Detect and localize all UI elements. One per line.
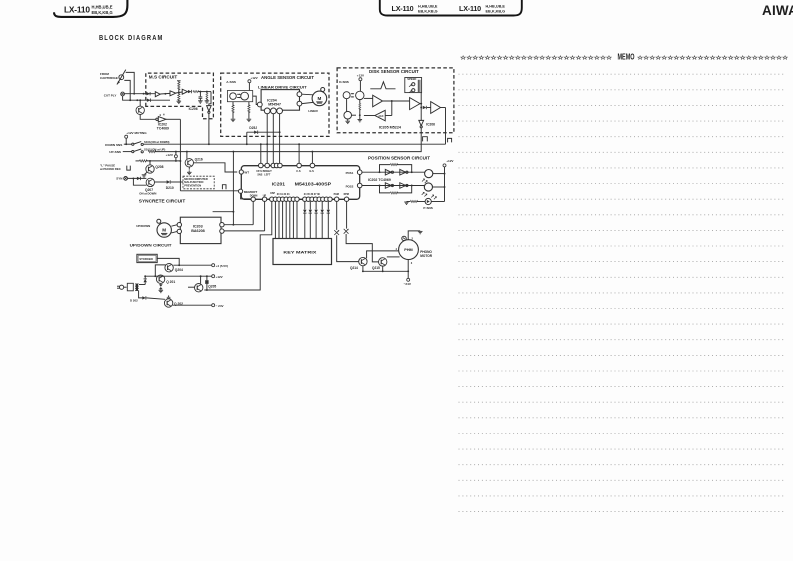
svg-text:BA6208: BA6208 (191, 229, 205, 233)
transistor Q216 (185, 152, 203, 175)
svg-text:+12V: +12V (216, 275, 223, 279)
speed adjust box (405, 77, 422, 93)
transistor Q (disk agc) (344, 99, 352, 124)
svg-text:ON at DOWN: ON at DOWN (139, 191, 156, 195)
wires angle pins to IC201 (261, 114, 280, 163)
pulse mark 1 (423, 137, 428, 142)
svg-text:RPM: RPM (344, 193, 349, 196)
wire POS2 row (362, 185, 424, 187)
svg-text:D 202: D 202 (130, 299, 138, 303)
photo sensor POS2 (422, 183, 433, 197)
transistor Q201 (156, 275, 175, 284)
svg-text:M: M (162, 228, 166, 233)
svg-text:at PHONO REC: at PHONO REC (100, 167, 122, 171)
node +12V (position) (433, 159, 455, 201)
svg-text:−24V: −24V (404, 282, 412, 286)
svg-text:UP/DOWN: UP/DOWN (136, 224, 150, 228)
svg-text:Q 201: Q 201 (166, 280, 175, 284)
memo ruled lines (459, 74, 787, 511)
STROBE box (137, 254, 157, 262)
pin WT (239, 170, 249, 175)
pin (drive input) (253, 96, 262, 107)
amplifier (disk) A1 (364, 95, 383, 107)
wire MEMORY jog (241, 193, 252, 199)
node +4V terminal (212, 264, 228, 268)
feedback loop top with resistor (380, 164, 412, 173)
wire DOWN pin to IC203 (224, 201, 253, 224)
amplifier A3 (182, 89, 187, 94)
svg-text:KEY MATRIX: KEY MATRIX (283, 251, 317, 255)
svg-text:IC205 M5224: IC205 M5224 (379, 125, 402, 129)
svg-text:EB,K,KB,G: EB,K,KB,G (418, 10, 438, 14)
transistor Q205 (188, 276, 216, 292)
svg-text:IC203: IC203 (193, 224, 203, 228)
node +12V terminal (212, 275, 223, 279)
pulse waveform (370, 82, 395, 89)
IC203 BA6208 (180, 217, 221, 243)
wire Q216 collector to WT pin (194, 163, 238, 172)
wire bias line with resistor (Q208 collector) (136, 160, 181, 162)
pin labels IC201 top (256, 169, 314, 177)
divider column R/R (177, 81, 182, 104)
motor UP/DOWN (136, 219, 171, 237)
svg-text:TC4069: TC4069 (157, 127, 169, 131)
node +12V MUTING terminal (125, 131, 148, 145)
svg-text:STOROBO: STOROBO (139, 257, 153, 261)
wire memory line with pulse mark (180, 185, 238, 191)
node SYN terminal (116, 177, 127, 181)
svg-text:IC202 TC4069: IC202 TC4069 (368, 178, 391, 182)
svg-text:UP: UP (263, 194, 267, 197)
svg-text:D25J: D25J (249, 126, 257, 130)
inverters IC202 TC4069 bank (368, 169, 408, 188)
wire +12V rail (145, 275, 212, 277)
svg-text:3: 3 (411, 261, 413, 265)
model tab LX-110 top-middle pair (380, 0, 522, 16)
label L PAUSE at PHONO REC (100, 163, 130, 171)
svg-text:30 31 32 33: 30 31 32 33 (277, 193, 290, 196)
svg-text:WT: WT (244, 171, 249, 175)
AC plug and transformer (117, 283, 139, 291)
photo interrupter A-SNS (226, 80, 252, 102)
model tab LX-110 top-left (54, 0, 127, 17)
svg-text:M54547: M54547 (268, 102, 281, 106)
wire POS1 row (362, 171, 425, 173)
pins IC203 left (171, 223, 181, 234)
svg-text:UP-SNS: UP-SNS (109, 150, 121, 154)
svg-text:LINER: LINER (308, 109, 318, 113)
svg-text:− 24V: − 24V (216, 304, 224, 308)
svg-text:E-S: E-S (310, 169, 315, 173)
svg-text:☆☆☆☆☆☆☆☆☆☆☆☆☆☆☆☆☆☆☆☆☆☆☆☆☆: ☆☆☆☆☆☆☆☆☆☆☆☆☆☆☆☆☆☆☆☆☆☆☆☆☆ (636, 55, 788, 61)
photo sensor D-SNS (339, 80, 364, 99)
pulse mark 2 (448, 138, 452, 142)
svg-text:LINEAR DRIVE CIRCUIT: LINEAR DRIVE CIRCUIT (258, 85, 307, 90)
svg-text:DOWN: DOWN (250, 194, 258, 197)
pins IC203 right (220, 223, 224, 234)
svg-text:POSITION SENSOR CIRCUIT: POSITION SENSOR CIRCUIT (368, 155, 430, 160)
switch S101 DOWN SNS (105, 140, 169, 147)
LINEAR DRIVE CIRCUIT IC204 (258, 85, 307, 111)
svg-text:+12V: +12V (250, 76, 258, 80)
wire disk output (441, 108, 446, 145)
pins (drive to motor) (297, 92, 313, 106)
node +12V (angle) (248, 76, 259, 91)
svg-text:MEMO: MEMO (618, 53, 635, 62)
wire A1-A2 (160, 93, 170, 95)
wire input line upper (125, 92, 156, 95)
svg-text:☆☆☆☆☆☆☆☆☆☆☆☆☆☆☆☆☆☆☆☆☆☆☆☆☆: ☆☆☆☆☆☆☆☆☆☆☆☆☆☆☆☆☆☆☆☆☆☆☆☆☆ (459, 55, 612, 61)
wire cartridge to amp inputs (124, 72, 134, 100)
svg-text:S101(ON at DOWN): S101(ON at DOWN) (144, 140, 170, 144)
transistor Q204 (155, 264, 211, 277)
transistor Q202 (164, 299, 211, 307)
svg-text:C-S: C-S (296, 169, 301, 173)
amplifier A2 (170, 91, 176, 96)
diode D25J (247, 126, 281, 144)
svg-text:ANGLE SENSOR CIRCUIT: ANGLE SENSOR CIRCUIT (261, 75, 314, 80)
svg-text:UP/DOWN CIRCUIT: UP/DOWN CIRCUIT (130, 243, 173, 248)
wire inverter output long vertical (166, 119, 181, 191)
diode D210 (154, 180, 183, 190)
svg-text:MOTOR: MOTOR (420, 254, 433, 258)
svg-text:H,HB,UB,E: H,HB,UB,E (486, 5, 506, 9)
resistor under photo sensor (352, 100, 363, 122)
wire sense line B with resistor (148, 151, 421, 153)
inverter IC206 (M.S) (189, 92, 212, 114)
M.S CIRCUIT dashed box (146, 73, 214, 119)
svg-text:POS2: POS2 (346, 185, 354, 189)
wire -24V rail (362, 270, 409, 272)
svg-text:AIWA: AIWA (762, 3, 793, 18)
capacitor under D202 (167, 295, 171, 298)
svg-text:SYNCRETE CIRCUIT: SYNCRETE CIRCUIT (139, 199, 186, 204)
wire A2 out junction (420, 93, 422, 121)
inverter IC202 TC4069 (156, 114, 169, 131)
AGC amplifier (364, 110, 392, 121)
wire strobe feed (157, 258, 180, 266)
svg-text:SNS LEFT: SNS LEFT (257, 174, 270, 177)
svg-text:DOWN SNS: DOWN SNS (105, 143, 122, 147)
svg-text:Q216: Q216 (195, 157, 203, 161)
amplifier chain A1 (155, 92, 160, 97)
diodes key matrix column group 2 (303, 201, 330, 238)
wire UP pin to IC203 (224, 201, 265, 231)
svg-text:LX-110: LX-110 (392, 4, 414, 13)
lamp symbol PHM line (334, 201, 359, 261)
pin labels IC201 bottom (250, 192, 349, 198)
svg-text:+12V: +12V (357, 73, 365, 77)
MEMO header star row (459, 53, 788, 62)
svg-text:AGC: AGC (378, 115, 383, 118)
lamp symbol RPM line (344, 201, 379, 262)
svg-text:PHM: PHM (334, 193, 339, 196)
svg-text:BLOCK DIAGRAM: BLOCK DIAGRAM (99, 33, 164, 42)
svg-text:POS1: POS1 (346, 171, 354, 175)
svg-text:MALFUNCTION: MALFUNCTION (184, 180, 203, 184)
KEY MATRIX box (273, 239, 332, 265)
transistor Q214 (350, 251, 399, 271)
svg-text:+12V MUTING: +12V MUTING (126, 131, 147, 135)
cartridge input labels (100, 72, 118, 80)
pins IC201 top (259, 163, 315, 168)
inverter IC206 (disk) (419, 120, 435, 151)
svg-text:UP-S BRIGHT: UP-S BRIGHT (256, 170, 272, 173)
pins POS1 POS2 (346, 170, 362, 189)
wire motor top to ground (408, 231, 422, 240)
motor PHM phono (396, 236, 433, 265)
svg-text:IC201: IC201 (272, 182, 286, 187)
wire syncrete feed vertical (213, 152, 235, 226)
svg-text:LX-110: LX-110 (459, 4, 481, 13)
svg-text:+12V: +12V (166, 153, 174, 157)
transistor Q212 (muting) (136, 100, 156, 119)
svg-text:+4 (5.5V): +4 (5.5V) (216, 264, 228, 268)
svg-text:M54103-400SP: M54103-400SP (295, 182, 332, 187)
svg-text:Q205: Q205 (208, 285, 216, 289)
node +12V (disk) (357, 73, 365, 91)
cartridge stylus symbol (117, 70, 126, 85)
IC U201 microcomputer M54103 (241, 166, 359, 200)
amplifier (disk) A2 (410, 98, 420, 110)
svg-text:Q215: Q215 (372, 266, 380, 270)
diode to A3 (423, 106, 431, 109)
feedback loop bottom with resistor (380, 186, 412, 194)
svg-text:CARTRIDGE: CARTRIDGE (100, 76, 118, 80)
diode and resistor after A3 (188, 90, 211, 93)
wire A2-A3 (176, 92, 182, 94)
svg-text:2: 2 (412, 237, 414, 241)
resistors to ground (angle) (231, 102, 252, 122)
wire IC206 output down to sense line (208, 113, 210, 144)
svg-text:Q214: Q214 (350, 266, 358, 270)
pin MEMORY (239, 189, 258, 194)
node CUT PLY terminal (104, 92, 125, 97)
svg-text:EB,K,KB,G: EB,K,KB,G (486, 10, 506, 14)
wires key matrix column group 1 (275, 201, 297, 238)
DISK SENSOR CIRCUIT dashed box (337, 68, 454, 133)
wire SYN input with diode (128, 177, 147, 186)
svg-text:KSP: KSP (270, 192, 275, 195)
wire input line lower (123, 96, 170, 102)
svg-text:SPEED: SPEED (407, 77, 416, 81)
svg-text:LX-110: LX-110 (64, 5, 90, 15)
transistor Q208 (142, 161, 164, 177)
wire sense line A (143, 143, 445, 145)
wire KSP pin to Q205 rail (204, 201, 271, 290)
ANGLE SENSOR CIRCUIT dashed box (221, 73, 329, 136)
svg-text:IC206: IC206 (189, 107, 198, 111)
RC to ground under A3 (198, 92, 209, 104)
svg-text:P-SNS: P-SNS (423, 206, 432, 210)
microcomputer malfunction prevention box (183, 176, 214, 189)
svg-text:A-SNS: A-SNS (226, 80, 236, 84)
svg-text:Q204: Q204 (175, 268, 183, 272)
svg-text:M.S CIRCUIT: M.S CIRCUIT (149, 75, 178, 80)
pins IC201 bottom (251, 197, 349, 201)
LED P-SNS (404, 195, 444, 211)
node +12V tap terminal (166, 152, 178, 161)
wires sense to C-S E-S (299, 144, 312, 163)
node -24V motor terminal (404, 260, 412, 286)
capacitor + ground under Q201 (159, 284, 164, 293)
svg-text:IC206: IC206 (426, 123, 435, 127)
svg-text:SYN: SYN (116, 177, 122, 181)
svg-text:+12V: +12V (446, 159, 454, 163)
transistor Q207 (139, 178, 156, 195)
capacitor (electrolytic) (205, 276, 208, 291)
svg-text:PHM: PHM (404, 248, 412, 252)
wire A1 out / AGC loop (383, 100, 410, 115)
svg-text:MICROCOMPUTER: MICROCOMPUTER (184, 177, 208, 181)
svg-text:M: M (317, 96, 321, 101)
linear motor M (308, 88, 326, 113)
svg-text:D210: D210 (166, 186, 174, 190)
svg-text:PREVENTION: PREVENTION (184, 184, 201, 188)
diode D202 (130, 291, 165, 303)
transistor Q215 (372, 257, 400, 271)
svg-text:D-SNS: D-SNS (339, 80, 349, 84)
svg-text:CUT PLY: CUT PLY (104, 93, 117, 97)
node -24V terminal (psu) (212, 304, 224, 308)
svg-text:DISK SENSOR CIRCUIT: DISK SENSOR CIRCUIT (369, 69, 419, 74)
svg-text:Q208: Q208 (155, 165, 163, 169)
switch S102 UP-SNS (109, 148, 165, 155)
diode D201 (139, 275, 147, 284)
photo sensor POS1 (422, 170, 433, 184)
svg-text:MEMORT: MEMORT (244, 190, 257, 194)
amplifier (disk) A3 (431, 102, 441, 114)
svg-text:H,HB,UB,E: H,HB,UB,E (418, 5, 438, 9)
pins (drive bottom) (264, 108, 282, 114)
svg-text:EB,K,KB,G: EB,K,KB,G (92, 10, 113, 15)
svg-text:34 35 36 37 38: 34 35 36 37 38 (304, 193, 321, 196)
